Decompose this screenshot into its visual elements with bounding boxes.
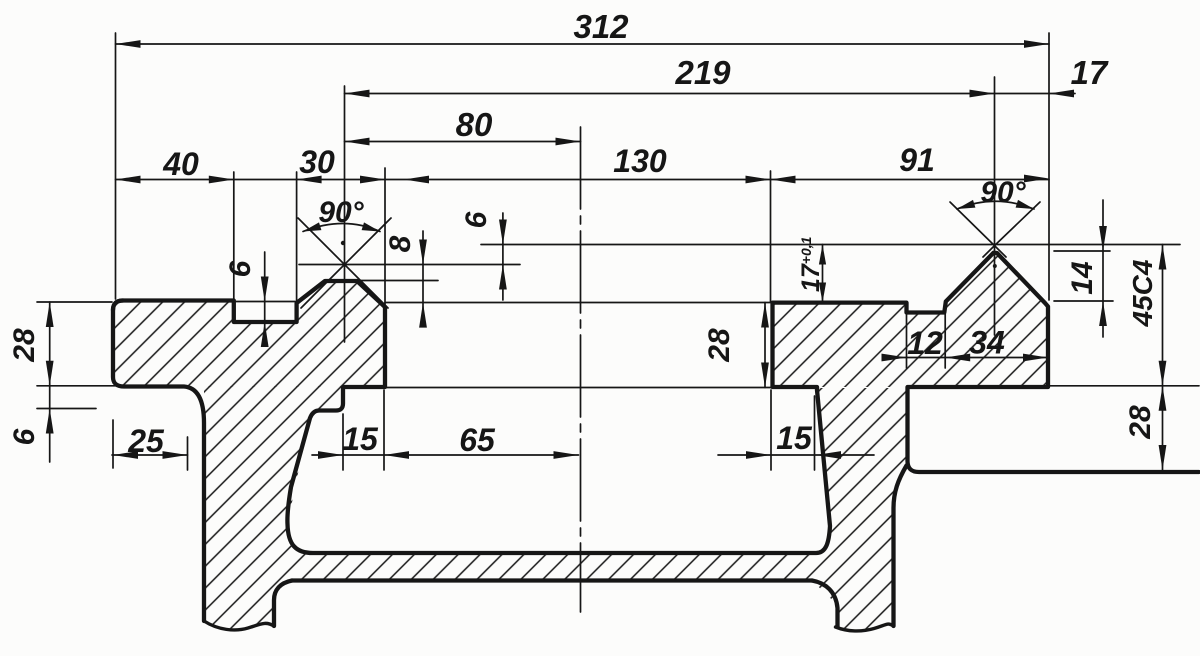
surface projection line y=302.5 between bosses [385, 302, 772, 304]
svg-text:6: 6 [8, 428, 41, 445]
dimension 17 top right [995, 54, 1109, 97]
center dot of left V construction [341, 241, 345, 245]
svg-text:25: 25 [127, 423, 165, 459]
svg-text:8: 8 [384, 235, 417, 252]
svg-text:312: 312 [573, 8, 629, 45]
dimension 25 [112, 423, 188, 459]
notch top bridge line y=301.5 [234, 301, 297, 303]
svg-text:91: 91 [899, 142, 935, 178]
hatch fill of right web section [812, 388, 906, 630]
svg-text:40: 40 [162, 146, 199, 182]
break line at bottom of left web [204, 621, 274, 630]
dimension 15 left [312, 421, 579, 459]
svg-text:14: 14 [1066, 261, 1099, 295]
svg-text:17: 17 [1071, 54, 1109, 91]
hatch fill of left web section [204, 386, 343, 629]
svg-text:15: 15 [776, 420, 813, 456]
dimension 8 [384, 231, 427, 328]
hatch fill of bottom flange section [204, 553, 893, 581]
svg-text:30: 30 [299, 144, 335, 180]
extension line left edge lower x=113 [112, 420, 114, 468]
dimension 17+0,1 [797, 236, 826, 302]
svg-text:28: 28 [703, 328, 736, 363]
right rim tip reference line y=251 [1054, 250, 1110, 252]
svg-text:28: 28 [8, 328, 41, 363]
boss bottom projection line y=387.5 between bosses [386, 387, 771, 389]
svg-text:6: 6 [460, 211, 493, 228]
left web lower right edge joining flange bottom [274, 581, 292, 627]
part outline: left boss left edge, foot, web left edge [113, 301, 204, 622]
svg-text:130: 130 [613, 143, 667, 179]
main centerline (dash-dot) at x=580.5 [580, 127, 582, 612]
dimension 28 left margin [8, 302, 54, 462]
label 90 degrees right [980, 176, 1026, 209]
right V construction cross [950, 202, 1040, 257]
extension line right boss left edge x=770.5 [770, 171, 772, 302]
hatch fill of right boss section [773, 253, 1049, 387]
extension line x=945.6 inside right boss [944, 314, 946, 368]
svg-text:45C4: 45C4 [1127, 259, 1158, 327]
dimension 28 middle [703, 303, 769, 388]
dimension 80 [345, 106, 581, 145]
right surface reference line y=301 at far right [1054, 300, 1113, 302]
svg-text:6: 6 [224, 260, 257, 277]
svg-text:219: 219 [674, 54, 731, 91]
extension line notch right wall x=296.6 [296, 172, 298, 300]
dimension 34 [969, 325, 1048, 362]
dimension 15 right [718, 420, 874, 459]
dimension 6 middle [460, 211, 507, 300]
dimension 14 [1066, 200, 1107, 337]
dimension 65 [459, 422, 578, 459]
dimension 30 [297, 144, 385, 183]
svg-text:65: 65 [459, 422, 496, 458]
extension line x=905 inside right boss [906, 314, 908, 368]
svg-text:12: 12 [907, 325, 943, 361]
dimension 40 [116, 146, 1050, 183]
extension line x=384 below boss [383, 390, 385, 470]
left apex horizontal reference line y=264.5 [299, 264, 520, 266]
dimension 28 bottom right [1124, 386, 1166, 470]
break line at bottom of right web [836, 624, 894, 631]
right 90-degree arc with arrows [957, 200, 1034, 209]
extension line x=814.5 right web top [814, 396, 816, 470]
part outline: left boss top, V-rib, step, web slope, flange top, right web slope, right boss with V-rim, rim line [113, 253, 1199, 553]
dimension 6 notch depth [224, 252, 269, 347]
hatch fill of left boss section [113, 281, 385, 387]
svg-text:15: 15 [342, 421, 379, 457]
dimension 219 [345, 54, 995, 97]
svg-text:28: 28 [1124, 405, 1157, 440]
flange bottom edge [292, 578, 812, 582]
center dot of right V construction [993, 264, 997, 268]
right V-rim centerline x=994.5 [994, 77, 996, 335]
extension line boss right edge x=385 [384, 168, 386, 307]
svg-text:90°: 90° [980, 176, 1026, 209]
extension line step x=343 [342, 414, 344, 470]
svg-text:80: 80 [456, 106, 493, 143]
left rib top reference line y=280.5 [358, 280, 438, 282]
right margin boss bottom line y=385.8 [1048, 385, 1199, 387]
svg-text:34: 34 [969, 325, 1005, 361]
left V construction cross [298, 218, 391, 308]
right apex horizontal reference line y=244.5 [481, 244, 1180, 246]
label 90 degrees left [318, 196, 364, 229]
right web lower left edge from flange bottom [812, 581, 838, 628]
extension line notch left wall x=233.8 [233, 172, 235, 300]
dimension 130 [404, 143, 771, 183]
left V-groove centerline x=344.5 [344, 86, 346, 342]
dimension 91 [771, 142, 1050, 183]
left 90-degree arc with arrows [303, 222, 380, 231]
extension line left edge x=115.5 [115, 33, 117, 299]
left margin foot line y=385.8 [37, 385, 123, 387]
extension line x=771 below right boss [770, 390, 772, 470]
dimension 6 left margin [8, 409, 54, 446]
dimension 12 [882, 325, 1049, 361]
dimension 45C4 [1127, 245, 1166, 473]
svg-text:90°: 90° [318, 196, 364, 229]
right web lower right edge [894, 466, 907, 627]
extension line foot corner x=187.5 [187, 437, 189, 470]
extension line right edge x=1049 [1048, 33, 1050, 300]
left margin surface line y=302 [37, 301, 112, 303]
left margin step line y=408.5 [37, 408, 96, 410]
dimension 312 [116, 8, 1050, 48]
